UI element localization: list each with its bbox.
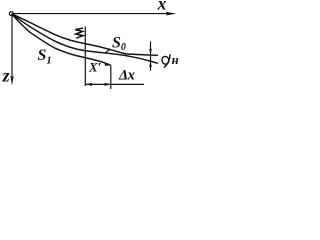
x-axis [13, 12, 176, 16]
svg-text:н: н [172, 53, 179, 67]
dimension line dx with inside arrows [86, 83, 144, 86]
svg-text:z: z [2, 66, 10, 86]
svg-text:Δx: Δx [118, 68, 135, 84]
svg-text:S0: S0 [112, 35, 126, 53]
curve C: lower subsidence curve S1 [12, 14, 111, 65]
curve A: upper subsidence curve S0, flat tail is phi_n reference line [12, 14, 159, 56]
rotated label w [75, 28, 83, 38]
right projection line for dx dimension [110, 65, 112, 89]
origin circle [9, 12, 13, 16]
curve B: middle curve, diverges from A at angle phi_n [12, 14, 159, 64]
vertical projection line through X' (w ordinate) [84, 27, 86, 87]
phi_n angle dimension: vertical line with opposed arrows [149, 42, 152, 71]
svg-text:S1: S1 [38, 47, 52, 67]
leader tick for S0 [105, 49, 110, 53]
svg-text:x: x [157, 0, 167, 14]
z-axis [10, 16, 13, 86]
svg-text:X′: X′ [88, 59, 102, 74]
label phi_n [161, 54, 170, 67]
arrowhead at end of curve C [104, 62, 110, 66]
